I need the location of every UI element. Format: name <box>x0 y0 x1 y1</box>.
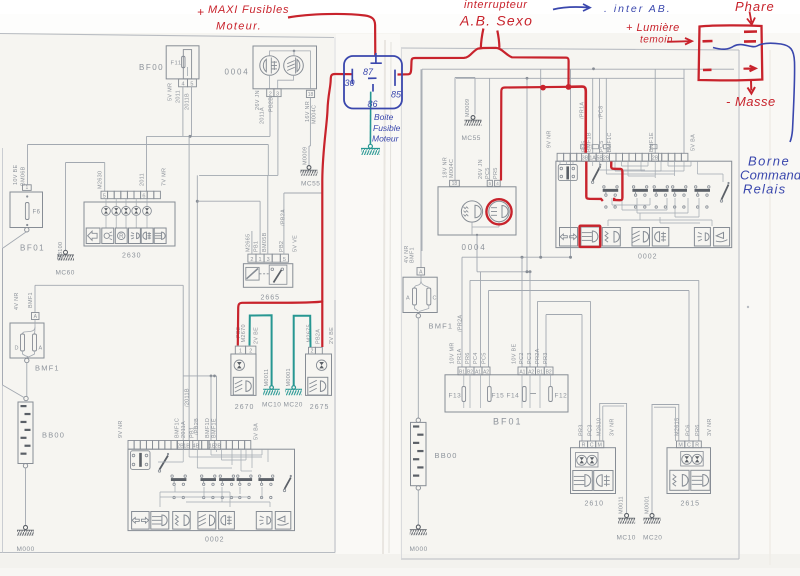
svg-text:. inter AB.: . inter AB. <box>604 3 672 15</box>
fog lamp unit 0004 left <box>225 46 317 89</box>
connector strip of 2630 <box>101 191 160 199</box>
red relay 85 wire to AB switch <box>398 48 569 87</box>
svg-text:A: A <box>39 346 43 352</box>
wire PC5 to 0004 right <box>489 78 491 180</box>
relay 2665 <box>243 264 292 302</box>
svg-text:BF01: BF01 <box>493 417 523 427</box>
svg-text:/PB2B: /PB2B <box>194 418 200 435</box>
svg-text:5: 5 <box>283 257 286 263</box>
wire 2011B from BF00 pin5 <box>184 87 191 137</box>
svg-text:0004: 0004 <box>462 243 487 252</box>
blue arrow <box>553 4 590 11</box>
svg-text:1: 1 <box>259 257 262 263</box>
wire from 0004 pin3 <box>277 97 279 176</box>
svg-text:BMF1: BMF1 <box>35 364 60 373</box>
fog lamp 2670 <box>231 324 260 411</box>
net H6 to 2610 <box>546 315 582 442</box>
long verticals from top bus <box>527 69 571 272</box>
switch unit 0002 left <box>128 449 295 543</box>
connector strip 0002 right <box>557 153 688 161</box>
svg-text:PC4: PC4 <box>473 352 479 364</box>
svg-text:2011: 2011 <box>140 173 146 186</box>
svg-text:10V MR: 10V MR <box>450 342 456 364</box>
red handwriting lumiere temoin <box>626 22 692 46</box>
red masse arrow and text <box>726 81 776 109</box>
svg-text:MC20: MC20 <box>643 535 662 542</box>
svg-text:F13: F13 <box>449 393 462 400</box>
svg-text:Borne: Borne <box>748 154 790 169</box>
svg-text:temoin: temoin <box>640 35 673 46</box>
svg-text:16V NR: 16V NR <box>305 101 311 122</box>
svg-text:PR3: PR3 <box>543 352 549 364</box>
svg-text:PC5: PC5 <box>485 167 491 179</box>
red hand-drawn relay box <box>699 25 763 80</box>
svg-text:3: 3 <box>267 257 270 263</box>
net H4 to 2615 <box>489 291 690 442</box>
svg-text:Commande: Commande <box>740 168 800 183</box>
red interrupteur strokes <box>481 29 500 49</box>
wire down from BMF1 <box>24 363 28 401</box>
svg-text:M004C: M004C <box>312 105 318 124</box>
net H2 <box>477 270 532 367</box>
svg-text:MAXI Fusibles: MAXI Fusibles <box>208 4 289 16</box>
svg-text:M0009: M0009 <box>303 147 309 165</box>
svg-text:M004C: M004C <box>449 159 455 178</box>
svg-text:Phare: Phare <box>735 0 775 14</box>
red circle annotation on fog lamp <box>486 199 511 224</box>
svg-text:BB00: BB00 <box>42 431 65 440</box>
svg-text:F12: F12 <box>555 393 568 400</box>
svg-text:PR3: PR3 <box>579 424 585 436</box>
lamp unit 2610 <box>571 418 616 508</box>
svg-text:BMF1: BMF1 <box>410 247 416 263</box>
bus 2011 horizontal <box>147 135 271 138</box>
svg-text:BMF1C: BMF1C <box>607 132 613 152</box>
wire PB2B vertical to 0002 <box>190 175 200 440</box>
svg-text:PB2A: PB2A <box>316 329 322 344</box>
fog lamp 2675 <box>306 324 336 411</box>
svg-text:1B: 1B <box>183 444 190 450</box>
svg-text:2: 2 <box>250 257 253 263</box>
svg-text:MC60: MC60 <box>56 270 75 277</box>
svg-text:PC3: PC3 <box>527 352 533 364</box>
svg-text:5V VE: 5V VE <box>293 235 299 252</box>
svg-text:/PR2A: /PR2A <box>458 315 464 332</box>
svg-text:BMF1: BMF1 <box>429 322 454 331</box>
svg-text:M2665: M2665 <box>245 234 251 252</box>
fusebox BF00 with fuse F11 <box>139 46 199 79</box>
wire from BF01 to left margin <box>3 232 26 248</box>
svg-text:6: 6 <box>142 193 145 199</box>
svg-text:2011A: 2011A <box>260 107 266 124</box>
svg-text:PR5: PR5 <box>493 167 499 179</box>
ground hook M2610 MC10 <box>600 403 636 541</box>
ground branch M3100 MC60 <box>56 163 105 277</box>
svg-text:A.B. Sexo: A.B. Sexo <box>459 13 533 29</box>
svg-text:2V BE: 2V BE <box>254 327 260 344</box>
svg-text:BM05B: BM05B <box>262 232 268 252</box>
svg-text:BMF1D: BMF1D <box>205 418 211 438</box>
strip feeders 0002 right <box>580 69 697 153</box>
red handwriting maxi fusibles moteur <box>197 4 289 33</box>
svg-text:4V NR: 4V NR <box>14 292 20 310</box>
svg-text:5: 5 <box>488 181 491 187</box>
svg-text:BB00: BB00 <box>435 451 458 460</box>
fuse F6 box BF01 <box>10 165 45 253</box>
svg-text:PC6: PC6 <box>686 424 692 436</box>
svg-text:M0011: M0011 <box>618 496 624 514</box>
svg-text:2011: 2011 <box>176 90 182 103</box>
svg-text:3: 3 <box>276 91 279 97</box>
svg-text:10V BE: 10V BE <box>512 344 518 364</box>
ground hook M2615 MC20 <box>643 405 679 542</box>
blue handwriting boite fusible moteur <box>372 112 401 144</box>
svg-text:Boite: Boite <box>374 112 394 122</box>
svg-text:0002: 0002 <box>205 537 225 544</box>
svg-text:M000: M000 <box>17 546 35 553</box>
svg-text:2615: 2615 <box>681 501 701 508</box>
connector pins 4 5 of BF00 <box>179 79 197 88</box>
svg-text:M000: M000 <box>410 546 428 553</box>
svg-text:18: 18 <box>452 181 458 187</box>
bus BMF1C horizontal <box>35 285 183 440</box>
svg-text:MC10: MC10 <box>617 535 636 542</box>
teal wire 2670 to ground MC10 <box>250 315 280 395</box>
svg-text:85: 85 <box>391 90 402 100</box>
svg-text:5V MR: 5V MR <box>168 83 174 101</box>
grounds MC10 MC20 left printed labels <box>262 368 303 408</box>
svg-text:2B: 2B <box>214 444 221 450</box>
svg-text:BMF1E: BMF1E <box>212 418 218 438</box>
bus BM05B horizontal <box>28 144 269 146</box>
connector BMF1 pin A <box>14 285 39 320</box>
ground branch M0009 MC55 right <box>455 78 482 181</box>
svg-text:3V NR: 3V NR <box>707 418 713 436</box>
svg-text:/PC8: /PC8 <box>598 106 604 119</box>
red handwriting interrupteur AB sexo <box>459 0 533 29</box>
bus to relay 2665 <box>197 201 260 254</box>
red handwriting phare with arrow <box>735 0 775 25</box>
svg-text:26V JN: 26V JN <box>478 159 484 179</box>
svg-text:10V BE: 10V BE <box>13 165 19 185</box>
switch unit 0002 right <box>556 161 732 260</box>
right sheet border <box>401 48 739 559</box>
svg-text:18V NR: 18V NR <box>443 157 449 178</box>
svg-text:30: 30 <box>345 78 355 88</box>
ground M000 left <box>17 526 35 554</box>
svg-text:86: 86 <box>368 99 378 109</box>
svg-text:M0001: M0001 <box>644 496 650 514</box>
svg-text:M0001: M0001 <box>286 368 292 386</box>
svg-text:9V NR: 9V NR <box>547 130 553 148</box>
net H3 to 2615 <box>470 280 699 441</box>
net H1 <box>462 256 572 367</box>
right sheet inner bus <box>422 67 734 251</box>
svg-text:F14: F14 <box>507 393 520 400</box>
svg-text:R: R <box>119 234 124 240</box>
stray mark <box>747 306 749 308</box>
wire PB2 to fog lamps <box>284 193 322 254</box>
svg-text:MC20: MC20 <box>284 402 303 409</box>
svg-text:2630: 2630 <box>122 253 142 260</box>
svg-text:PC5: PC5 <box>482 352 488 364</box>
connector pins 2 3 18 of 0004 left <box>267 89 315 98</box>
svg-text:BF00: BF00 <box>139 63 164 72</box>
svg-text:BM06B: BM06B <box>21 166 27 186</box>
svg-text:Relais: Relais <box>743 182 786 197</box>
wire 10V BE up from F6 <box>27 145 29 185</box>
svg-text:Moteur.: Moteur. <box>216 21 262 33</box>
verticals PC2 PR2A <box>522 257 530 367</box>
svg-text:18: 18 <box>308 92 314 98</box>
svg-text:A: A <box>406 296 410 302</box>
svg-text:BF01: BF01 <box>20 244 45 253</box>
ground M000 right <box>410 525 428 553</box>
wire 2011 from BF00 pin4 <box>168 83 183 137</box>
red relay terminal 30 wire <box>322 74 352 302</box>
svg-text:9V NR: 9V NR <box>118 420 124 438</box>
svg-text:PR2A: PR2A <box>535 348 541 364</box>
svg-text:BMF1C: BMF1C <box>175 418 181 438</box>
red bus to PR5 and 0002 <box>501 84 586 181</box>
svg-text:F15: F15 <box>492 393 505 400</box>
svg-text:4: 4 <box>182 82 185 88</box>
svg-text:M2630: M2630 <box>98 171 104 189</box>
svg-text:PR6: PR6 <box>465 352 471 364</box>
svg-text:2011A: 2011A <box>181 421 187 438</box>
svg-text:F11: F11 <box>171 61 182 67</box>
svg-text:PB2B: PB2B <box>268 97 274 112</box>
svg-text:0002: 0002 <box>638 254 658 261</box>
svg-text:F6: F6 <box>33 210 41 216</box>
red traces inside 0002 right <box>586 162 622 202</box>
wire from 0004 bottom <box>476 235 478 272</box>
relay 2665 connector <box>245 175 298 263</box>
left sheet border <box>0 34 391 554</box>
svg-text:interrupteur: interrupteur <box>464 0 528 11</box>
svg-text:+: + <box>197 5 205 19</box>
blue handwriting borne commande relais <box>740 154 800 197</box>
svg-text:2011B: 2011B <box>184 93 190 110</box>
blue handwriting inter AB <box>604 3 672 15</box>
svg-text:MC55: MC55 <box>301 181 320 188</box>
net H5 to 2610 <box>538 301 591 441</box>
switch unit 2630 <box>84 199 175 260</box>
svg-text:PC3: PC3 <box>588 424 594 436</box>
twin fuse box BMF1 <box>10 320 60 373</box>
red wire maxi fuse to relay <box>288 14 375 57</box>
red wire to fog lamps <box>238 302 322 348</box>
svg-text:Moteur: Moteur <box>372 134 400 144</box>
svg-text:0004: 0004 <box>225 68 250 77</box>
ground M0009 MC55 left <box>301 146 321 188</box>
headlamp unit 0004 right <box>438 157 516 252</box>
svg-text:5V BA: 5V BA <box>254 423 260 440</box>
svg-text:D: D <box>15 346 19 352</box>
svg-text:5V BA: 5V BA <box>691 134 697 151</box>
teal wire 2675 to ground MC20 <box>285 316 310 396</box>
wire M004C from 0004 pin18 <box>305 98 318 147</box>
svg-text:MC55: MC55 <box>462 135 481 142</box>
svg-text:BMF1: BMF1 <box>28 292 34 308</box>
svg-text:M2670: M2670 <box>241 324 247 342</box>
svg-text:4B: 4B <box>192 444 199 450</box>
svg-text:/2011B: /2011B <box>184 388 190 407</box>
svg-text:PR6: PR6 <box>695 424 701 436</box>
fuse box BF01 right <box>445 315 568 427</box>
svg-text:5: 5 <box>103 193 106 199</box>
lamp unit 2615 <box>667 418 713 508</box>
svg-text:2: 2 <box>269 91 272 97</box>
battery chain BB00 right <box>411 422 458 529</box>
blue curve from relay to right <box>713 43 795 142</box>
wire 2011A from 0004 pin2 <box>255 90 274 136</box>
svg-text:1: 1 <box>25 185 28 191</box>
svg-text:PB1: PB1 <box>254 241 260 252</box>
svg-text:M0011: M0011 <box>264 369 270 387</box>
svg-text:2V BE: 2V BE <box>329 327 335 344</box>
twin fuse box BMF1 right <box>403 275 453 331</box>
svg-text:Fusible: Fusible <box>373 123 401 133</box>
svg-text:- Masse: - Masse <box>726 94 776 109</box>
svg-text:2665: 2665 <box>261 295 281 302</box>
svg-text:C: C <box>433 296 437 302</box>
wire 2011A-2011B down to 0002 <box>181 136 191 440</box>
svg-text:3V NR: 3V NR <box>610 418 616 436</box>
teal wire relay 86 to ground <box>361 92 380 155</box>
red annotation on headlight icon <box>580 226 601 247</box>
svg-text:87: 87 <box>363 67 374 77</box>
wire 7V MR to 2630 pin6 <box>140 136 168 191</box>
connector strip of switch unit 0002 left <box>118 420 260 449</box>
battery chain BB00 <box>18 402 65 530</box>
svg-text:PC2: PC2 <box>519 352 525 364</box>
svg-text:2670: 2670 <box>235 404 255 411</box>
connector A of BMF1 right <box>404 69 425 276</box>
svg-text:PC5: PC5 <box>599 140 605 152</box>
bus PB2B horizontal <box>199 145 278 176</box>
blue relay box <box>344 53 402 109</box>
svg-text:5: 5 <box>190 82 193 88</box>
svg-text:M0009: M0009 <box>465 99 471 117</box>
svg-text:4: 4 <box>496 181 499 187</box>
svg-text:MC10: MC10 <box>262 402 281 409</box>
branch BMF1D BMF1E <box>183 375 217 441</box>
svg-text:2675: 2675 <box>310 404 330 411</box>
svg-text:PR1A: PR1A <box>457 348 463 364</box>
svg-text:7V MR: 7V MR <box>162 168 168 186</box>
svg-text:2610: 2610 <box>585 501 605 508</box>
left margin wire <box>3 248 25 398</box>
svg-text:+ Lumière: + Lumière <box>626 22 680 34</box>
wire down from BMF1 right <box>416 318 420 423</box>
